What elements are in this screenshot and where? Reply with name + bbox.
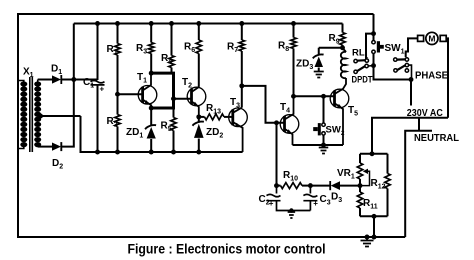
- node SW1 top: [371, 31, 376, 36]
- zener diode ZD3: [315, 57, 324, 68]
- resistor R6: [196, 40, 201, 54]
- wire D2 cathode up to D1: [61, 24, 74, 147]
- wire phase stub down: [410, 80, 412, 106]
- node frame gnd 2: [372, 235, 377, 240]
- wire C1 branch: [97, 24, 99, 153]
- node D1-D2 join: [71, 77, 76, 82]
- svg-text:NEUTRAL: NEUTRAL: [414, 132, 460, 144]
- node R10-C3: [308, 183, 313, 188]
- relay coil RL1: [341, 52, 346, 78]
- wire T2 base: [174, 98, 192, 100]
- wire R6 branch: [198, 24, 200, 87]
- diode D1: [52, 75, 61, 83]
- ground C2-C3: [290, 211, 292, 213]
- resistor R12: [385, 174, 390, 189]
- node rail-R7: [239, 21, 244, 26]
- wire to D3: [310, 185, 330, 187]
- switch SW1 actuator: [377, 41, 380, 52]
- node center tap: [38, 114, 43, 119]
- node box bottom: [372, 214, 377, 219]
- wire VR1 branch top: [359, 154, 361, 163]
- motor M1: [426, 32, 438, 44]
- wire +V rail: [74, 23, 343, 25]
- wire T4 base tap down to R10 node: [276, 123, 278, 186]
- ground ZD3: [314, 72, 324, 78]
- node rail-R6: [196, 21, 201, 26]
- transistor T5: [330, 78, 349, 145]
- transistor T4: [280, 96, 299, 145]
- wire R4 branch: [171, 24, 173, 74]
- zener diode ZD2: [194, 124, 204, 138]
- node gnd-C1: [95, 150, 100, 155]
- wire VR1-R12 box top: [360, 153, 388, 155]
- transistor T2: [187, 87, 206, 117]
- node rail-C1: [95, 21, 100, 26]
- node frame gnd 1: [365, 235, 370, 240]
- wire box bottom: [360, 215, 388, 217]
- resistor R4: [169, 56, 174, 68]
- capacitor C3: [303, 186, 317, 211]
- diode D2: [52, 143, 61, 151]
- resistor R3: [149, 43, 154, 54]
- relay contact pole2 lower arm: [397, 65, 405, 70]
- wire mains drop to SW1: [374, 14, 412, 80]
- motor M1 terminals: [418, 35, 424, 41]
- node VR1-R11-D3: [358, 183, 363, 188]
- svg-text:+: +: [100, 85, 105, 94]
- resistor R1: [115, 44, 120, 56]
- wire to T5 base: [294, 95, 335, 97]
- transformer X1 core: [30, 77, 33, 152]
- resistor R5: [171, 118, 176, 131]
- wire ZD3 link: [319, 47, 343, 49]
- wire T4-T5 emitter line: [293, 144, 344, 146]
- diode D3: [331, 181, 340, 190]
- svg-text:M: M: [428, 34, 435, 44]
- wire D1 cathode to C1: [61, 79, 97, 81]
- wire pole1 to SW1 line: [368, 65, 373, 67]
- node R7 tap: [239, 83, 244, 88]
- wire R8 branch: [293, 24, 295, 97]
- wire neutral riser and neutral stub: [405, 118, 432, 237]
- node gnd-R5: [171, 150, 176, 155]
- transistor T3: [229, 108, 248, 152]
- resistor R8: [291, 38, 296, 49]
- svg-text:230V AC: 230V AC: [407, 107, 443, 119]
- node pole1 junction: [371, 63, 376, 68]
- node T1 collector: [149, 71, 154, 76]
- resistor R10: [277, 185, 281, 187]
- transformer X1 secondary winding: [34, 80, 41, 148]
- node gnd-R2: [115, 150, 120, 155]
- relay contact pole1 lower arm: [357, 66, 365, 71]
- relay contact pole2 lower throw: [405, 69, 408, 72]
- wire secondary top to D1: [38, 79, 52, 81]
- wire motor left lead: [406, 38, 418, 57]
- wire VR1 to node: [359, 179, 361, 192]
- node R8-T4 collector: [291, 94, 296, 99]
- transformer X1 primary winding: [18, 81, 27, 149]
- node C2-C3 ground: [289, 208, 293, 212]
- node phase junction: [409, 77, 414, 82]
- wire motor right lead: [446, 38, 448, 117]
- ground SW2: [323, 145, 325, 148]
- switch SW1 contacts: [372, 41, 375, 44]
- wire ZD2 branch: [198, 117, 200, 152]
- resistor R11: [357, 192, 362, 208]
- wire pole2 to phase junction: [409, 65, 412, 79]
- capacitor C2: [267, 186, 311, 211]
- resistor R9: [340, 33, 345, 45]
- wire secondary bottom to D2: [38, 146, 52, 148]
- wire SW2 branch: [323, 96, 325, 145]
- capacitor C1 plates: [91, 81, 105, 85]
- node T2 emitter: [196, 114, 201, 119]
- wire R12 branch: [387, 154, 389, 217]
- relay contact pole1 upper arm: [357, 59, 366, 62]
- svg-text:PHASE: PHASE: [415, 70, 448, 82]
- ground main: [366, 237, 368, 241]
- node R9-ZD3-coil: [340, 45, 345, 50]
- node T1 emitter join: [149, 106, 154, 111]
- node R10-C2: [274, 183, 279, 188]
- wire box to frame: [373, 216, 375, 237]
- resistor R13: [199, 116, 205, 118]
- wire center tap: [39, 115, 81, 117]
- wire R1-R2 branch: [117, 24, 119, 153]
- resistor R2: [115, 115, 120, 127]
- wire to T1 base: [118, 93, 143, 95]
- wire ZD3 branch: [318, 48, 320, 72]
- wire R9 from rail: [343, 24, 347, 53]
- wire thick box T1 collector-emitter: [151, 73, 173, 108]
- wire R7 tap to T4 base: [242, 86, 285, 123]
- wire mains outer frame (top, left, bottom): [18, 14, 405, 237]
- zener diode ZD1: [147, 127, 156, 139]
- svg-text:Figure : Electronics motor con: Figure : Electronics motor control: [128, 242, 326, 257]
- node rail-R3: [149, 21, 154, 26]
- node rail-R1: [115, 21, 120, 26]
- node SW2 ground: [321, 143, 326, 148]
- wire R5 branch: [173, 108, 175, 152]
- node SW2 tap: [321, 94, 326, 99]
- relay contact pole2 upper arm: [397, 58, 406, 60]
- switch SW2 actuator: [318, 123, 321, 135]
- svg-text:DPDT: DPDT: [352, 75, 373, 86]
- node T1 base tap: [115, 92, 120, 97]
- node gnd-ZD2: [196, 150, 201, 155]
- node T4 base tap: [274, 120, 279, 125]
- node gnd-ZD1: [149, 150, 154, 155]
- node box top feed: [370, 151, 375, 156]
- node rail-R8: [291, 21, 296, 26]
- node rail-R4: [169, 21, 174, 26]
- switch SW2 contacts: [322, 123, 325, 126]
- wire branch to relay contact: [366, 34, 374, 60]
- potentiometer VR1: [357, 163, 362, 179]
- wire ZD1 branch: [150, 108, 152, 152]
- node T2 base tap: [171, 96, 176, 101]
- wire R3 branch: [150, 24, 152, 74]
- wire 0V rail from center tap: [81, 116, 243, 152]
- wire 230V AC line: [372, 118, 448, 154]
- potentiometer VR1 wiper: [363, 169, 368, 174]
- svg-text:+: +: [269, 199, 274, 208]
- wire R7 branch: [241, 24, 243, 108]
- resistor R7: [239, 40, 244, 51]
- svg-text:+: +: [313, 199, 318, 208]
